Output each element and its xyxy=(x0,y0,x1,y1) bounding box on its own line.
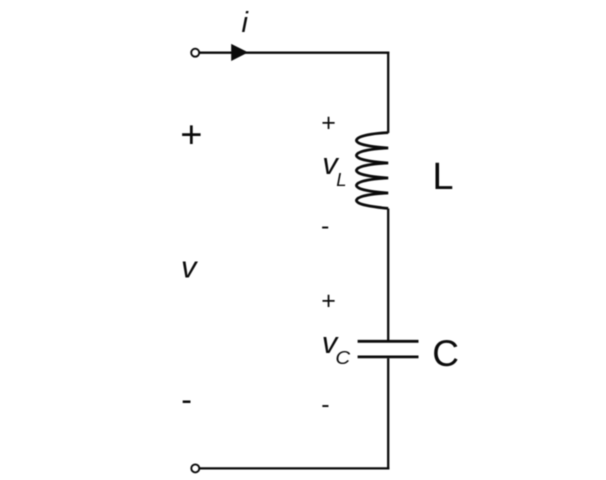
svg-text:-: - xyxy=(181,382,192,418)
svg-text:C: C xyxy=(432,333,459,374)
svg-text:+: + xyxy=(180,114,202,156)
svg-text:L: L xyxy=(432,156,453,198)
svg-text:+: + xyxy=(321,287,336,315)
svg-text:v: v xyxy=(181,250,198,285)
svg-text:C: C xyxy=(335,347,350,368)
svg-text:i: i xyxy=(242,7,250,39)
svg-text:-: - xyxy=(321,390,329,418)
svg-text:-: - xyxy=(321,212,329,240)
svg-text:+: + xyxy=(321,109,336,137)
svg-text:L: L xyxy=(336,169,346,190)
